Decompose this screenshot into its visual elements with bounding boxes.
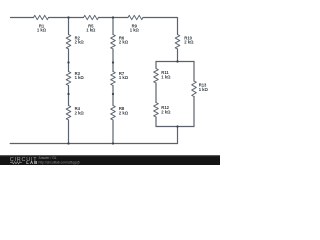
wire loop top xyxy=(156,61,194,63)
wire R7 to R8 xyxy=(112,86,114,106)
wire R8 to bottom rail xyxy=(112,120,114,144)
wire loop left upper lead xyxy=(155,62,157,69)
wire loop right upper lead xyxy=(193,62,195,82)
svg-text:2 kΩ: 2 kΩ xyxy=(184,40,194,45)
logo resistor glyph xyxy=(10,162,22,164)
resistor R3 xyxy=(66,72,71,86)
wire loop left lower lead xyxy=(155,117,157,127)
svg-text:1 kΩ: 1 kΩ xyxy=(161,75,171,80)
node R2-R3 junction dot xyxy=(67,61,69,63)
wire bottom rail xyxy=(10,143,177,145)
wire R9 to top-right corner and down xyxy=(143,18,178,35)
wire node A down lead xyxy=(68,18,70,35)
svg-text:2 kΩ: 2 kΩ xyxy=(161,109,171,114)
resistor R1 xyxy=(34,15,49,19)
node B junction dot xyxy=(112,16,114,18)
wire R1 to node A xyxy=(49,17,84,19)
svg-text:2 kΩ: 2 kΩ xyxy=(119,40,129,45)
resistor R6 xyxy=(111,35,116,49)
resistor R2 xyxy=(66,35,71,49)
wire R5 to node B xyxy=(99,17,129,19)
svg-text:1 kΩ: 1 kΩ xyxy=(37,28,47,33)
node A junction dot xyxy=(67,16,69,18)
node R6-R7 junction dot xyxy=(112,61,114,63)
svg-text:2 kΩ: 2 kΩ xyxy=(119,111,129,116)
resistor R10 xyxy=(175,35,180,49)
wire node B down lead xyxy=(112,18,114,35)
wire top-left lead xyxy=(11,17,34,19)
svg-text:1 kΩ: 1 kΩ xyxy=(130,28,140,33)
wire R6 to R7 xyxy=(112,49,114,72)
node loop top junction dot xyxy=(176,60,178,62)
svg-text:1 kΩ: 1 kΩ xyxy=(86,28,96,33)
node bottom rail col2 junction dot xyxy=(112,142,114,144)
resistor R4 xyxy=(66,106,71,121)
wire R11 to R12 xyxy=(155,83,157,103)
wire loop bottom xyxy=(156,126,194,128)
wire R10 to loop top node xyxy=(177,49,179,62)
resistor R13 xyxy=(192,81,197,97)
svg-text:http://circuitlab.com/c/6qgq5: http://circuitlab.com/c/6qgq5 xyxy=(39,160,80,164)
svg-text:2 kΩ: 2 kΩ xyxy=(75,40,85,45)
node R7-R8 junction dot xyxy=(112,93,114,95)
resistor R12 xyxy=(154,103,159,118)
resistor R5 xyxy=(84,15,99,19)
wire R3 to R4 xyxy=(68,86,70,106)
wire R4 to bottom rail xyxy=(68,120,70,144)
node loop bottom junction dot xyxy=(176,125,178,127)
resistor R11 xyxy=(154,69,159,84)
resistor R7 xyxy=(111,72,116,86)
wire loop stem to bottom rail xyxy=(177,127,179,144)
svg-text:2 kΩ: 2 kΩ xyxy=(75,111,85,116)
node bottom rail col1 junction dot xyxy=(67,142,69,144)
resistor R8 xyxy=(111,106,116,121)
svg-text:1 kΩ: 1 kΩ xyxy=(199,87,209,92)
node R3-R4 junction dot xyxy=(67,93,69,95)
wire R2 to R3 xyxy=(68,49,70,72)
resistor R9 xyxy=(128,15,143,19)
svg-text:1 kΩ: 1 kΩ xyxy=(75,75,85,80)
footer watermark bar xyxy=(0,155,220,165)
svg-text:LAB: LAB xyxy=(26,160,38,165)
svg-text:1 kΩ: 1 kΩ xyxy=(119,75,129,80)
wire loop right lower lead xyxy=(193,97,195,127)
